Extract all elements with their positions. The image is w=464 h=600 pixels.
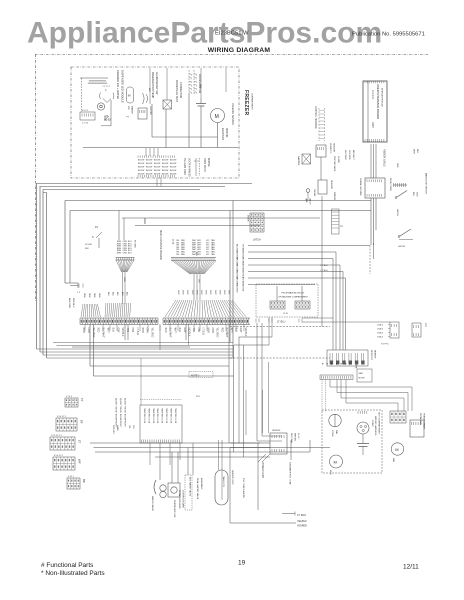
svg-text:BLK/W: BLK/W <box>146 167 152 169</box>
svg-text:6 5 4 3 2 1: 6 5 4 3 2 1 <box>54 455 63 457</box>
svg-text:Publication No. 5995505671: Publication No. 5995505671 <box>352 31 425 37</box>
svg-text:HEATER 120V: HEATER 120V <box>231 470 234 485</box>
svg-text:GRN: GRN <box>355 364 357 369</box>
svg-text:BLK/W: BLK/W <box>138 167 144 169</box>
svg-text:WHT: WHT <box>177 290 179 295</box>
svg-text:LT.BLU: LT.BLU <box>377 329 384 331</box>
svg-text:QUICK TOUCH IN DEFROST: QUICK TOUCH IN DEFROST <box>119 398 121 428</box>
svg-text:WIRING: WIRING <box>207 158 209 167</box>
svg-text:TAN: TAN <box>211 253 215 256</box>
svg-text:BF: BF <box>80 420 84 424</box>
svg-text:LED: LED <box>104 117 109 119</box>
svg-text:OF MACHINE COMPARTMENT: OF MACHINE COMPARTMENT <box>278 296 308 299</box>
svg-text:M: M <box>395 447 398 452</box>
svg-text:TEMP RES 16.3K: TEMP RES 16.3K <box>147 408 149 424</box>
svg-text:BLK/W: BLK/W <box>170 160 176 162</box>
svg-text:RED: RED <box>181 254 186 256</box>
svg-text:YEL/BLK: YEL/BLK <box>297 520 307 523</box>
svg-text:BLK/W: BLK/W <box>170 170 176 172</box>
svg-text:BLK/W: BLK/W <box>162 170 168 172</box>
svg-text:BLK/W: BLK/W <box>138 174 144 176</box>
svg-text:BLK: BLK <box>148 88 150 92</box>
svg-text:DAMPER: DAMPER <box>297 156 300 166</box>
svg-text:YEL/RED: YEL/RED <box>151 328 153 338</box>
svg-text:AUX WATER VALVE: AUX WATER VALVE <box>189 477 192 497</box>
svg-text:VIO: VIO <box>132 425 134 429</box>
svg-text:WHT: WHT <box>214 290 216 295</box>
svg-text:TEMP RES 16.3K: TEMP RES 16.3K <box>174 408 176 424</box>
svg-text:LT.BLU: LT.BLU <box>377 325 384 327</box>
svg-text:IM: IM <box>128 95 131 98</box>
svg-text:T: T <box>105 89 107 93</box>
svg-text:ORN: ORN <box>199 84 201 89</box>
svg-text:BRN ORN: BRN ORN <box>68 298 70 309</box>
svg-text:BRN: BRN <box>141 328 143 333</box>
svg-text:BLU: BLU <box>112 292 114 296</box>
svg-text:ICE: ICE <box>127 106 129 110</box>
svg-text:YEL: YEL <box>176 254 180 256</box>
svg-text:ORN: ORN <box>93 293 95 298</box>
svg-text:VIO BLK: VIO BLK <box>242 284 244 292</box>
svg-text:MAIN DOOR SWITCH: MAIN DOOR SWITCH <box>425 173 428 194</box>
svg-text:LT. BLU: LT. BLU <box>277 321 286 324</box>
svg-text:SEE: SEE <box>359 373 364 375</box>
svg-text:DISPLAY MODULE: DISPLAY MODULE <box>381 88 384 108</box>
svg-text:BLK/W: BLK/W <box>162 167 168 169</box>
svg-text:YEL/GRN: YEL/GRN <box>348 150 350 160</box>
svg-text:FILL TUBE HEATER: FILL TUBE HEATER <box>242 478 245 498</box>
svg-text:L1 N: L1 N <box>283 313 288 315</box>
svg-text:GRN/YEL: GRN/YEL <box>272 430 282 432</box>
svg-text:AppliancePartsPros.com: AppliancePartsPros.com <box>27 17 382 50</box>
svg-text:BRN: BRN <box>117 253 122 255</box>
svg-text:SIGNAL GROUND: SIGNAL GROUND <box>359 178 362 196</box>
svg-text:HARN: HARN <box>116 425 119 431</box>
svg-text:LT.BLU: LT.BLU <box>377 333 384 335</box>
svg-text:FAN: FAN <box>392 458 395 463</box>
svg-text:LATCH: LATCH <box>398 245 405 248</box>
svg-text:LT BLU: LT BLU <box>136 328 138 336</box>
svg-text:TEMP RES 16.3K: TEMP RES 16.3K <box>165 408 167 424</box>
svg-text:BLU: BLU <box>116 292 118 296</box>
svg-text:LATCH: LATCH <box>253 239 261 242</box>
svg-text:19: 19 <box>238 560 246 567</box>
svg-text:FREEZER SENSOR: FREEZER SENSOR <box>231 103 234 125</box>
svg-text:COND: COND <box>331 430 333 437</box>
svg-text:* Non-Illustrated Parts: * Non-Illustrated Parts <box>41 570 105 577</box>
svg-text:ORN: ORN <box>83 293 85 298</box>
svg-text:YEL/RED: YEL/RED <box>216 328 218 338</box>
svg-text:FRZR DOOR: FRZR DOOR <box>203 158 205 172</box>
svg-text:WHT: WHT <box>416 192 418 197</box>
svg-text:CONTROL HOUSING: CONTROL HOUSING <box>314 106 316 129</box>
svg-text:LT. BLU: LT. BLU <box>321 265 329 267</box>
svg-text:RUN: RUN <box>329 470 331 475</box>
svg-text:BLU: BLU <box>111 328 113 333</box>
svg-text:FREEZER: FREEZER <box>243 90 249 116</box>
svg-text:WHT: WHT <box>218 290 220 295</box>
svg-text:4 3 2 1: 4 3 2 1 <box>68 476 74 478</box>
svg-text:VIO/RED: VIO/RED <box>297 525 307 528</box>
svg-text:DISP: DISP <box>371 122 374 128</box>
svg-text:ORN: ORN <box>123 253 128 255</box>
svg-text:BLU: BLU <box>125 292 127 296</box>
svg-text:COMPARTMENT: COMPARTMENT <box>251 93 254 111</box>
svg-text:COMP: COMP <box>371 420 373 427</box>
svg-text:TAN: TAN <box>192 328 195 333</box>
svg-text:TP: TP <box>80 398 84 402</box>
svg-text:ALARM RESET SW: ALARM RESET SW <box>155 72 158 95</box>
svg-text:RED: RED <box>220 328 222 333</box>
svg-text:NOTE: NOTE <box>359 378 366 380</box>
svg-text:DUCT: DUCT <box>309 199 311 205</box>
svg-text:NEUTRAL: NEUTRAL <box>290 433 293 444</box>
svg-text:BLK/W: BLK/W <box>138 163 144 165</box>
svg-text:ICEMAKER FILL TUBE: ICEMAKER FILL TUBE <box>289 462 292 485</box>
svg-text:TRANSFORMER: TRANSFORMER <box>423 413 426 430</box>
svg-text:RIBBON: RIBBON <box>333 192 335 200</box>
svg-text:BLK/W: BLK/W <box>146 174 152 176</box>
svg-text:RED: RED <box>164 328 166 333</box>
svg-text:DOOR HARNESS: DOOR HARNESS <box>188 158 191 177</box>
svg-text:CONNECTOR: CONNECTOR <box>179 82 182 98</box>
svg-text:ORN: ORN <box>146 328 148 333</box>
svg-text:VIO: VIO <box>206 254 210 256</box>
svg-text:BLK/W: BLK/W <box>138 160 144 162</box>
svg-text:1 2 3 4: 1 2 3 4 <box>66 396 72 398</box>
svg-text:DOOR: DOOR <box>85 244 92 246</box>
svg-text:BLK/W: BLK/W <box>154 170 160 172</box>
svg-text:BLU: BLU <box>128 253 132 255</box>
svg-text:DOOR PLUG TEST: DOOR PLUG TEST <box>175 80 178 103</box>
svg-text:TEMP RES 16.3K: TEMP RES 16.3K <box>169 408 171 424</box>
svg-text:TANK HTR: TANK HTR <box>222 476 225 487</box>
svg-text:DISPENSER LED MODULE: DISPENSER LED MODULE <box>121 70 125 103</box>
svg-text:W/F: W/F <box>78 459 82 464</box>
svg-text:WIRING DIAGRAM: WIRING DIAGRAM <box>208 47 271 54</box>
svg-text:WHT: WHT <box>200 290 202 295</box>
svg-text:WHT: WHT <box>107 328 109 334</box>
svg-text:FROM MAIN BD IN/OUT: FROM MAIN BD IN/OUT <box>282 292 306 295</box>
svg-text:4 3 2 1: 4 3 2 1 <box>82 110 89 112</box>
svg-text:LT. BLU: LT. BLU <box>297 513 306 517</box>
svg-text:WHT: WHT <box>195 290 197 295</box>
svg-text:EVAP FAN: EVAP FAN <box>221 128 224 140</box>
svg-text:THERM: THERM <box>313 189 315 196</box>
svg-text:WHT: WHT <box>205 290 207 295</box>
svg-text:WHT: WHT <box>413 149 415 154</box>
svg-text:BLK/WHT: BLK/WHT <box>169 328 171 339</box>
svg-text:CENTER WIRE: CENTER WIRE <box>333 156 335 172</box>
svg-text:ET: ET <box>78 440 82 444</box>
svg-text:WHT: WHT <box>230 328 232 334</box>
svg-text:BD 12: BD 12 <box>104 120 111 122</box>
svg-text:BLK/WHT: BLK/WHT <box>352 150 354 160</box>
svg-text:ORN: ORN <box>88 293 90 298</box>
svg-text:WHT: WHT <box>228 290 230 295</box>
svg-text:GUIDE: GUIDE <box>337 156 339 163</box>
svg-text:QUICK TOUCH IN DEFROST: QUICK TOUCH IN DEFROST <box>124 398 126 428</box>
svg-text:WHT/BLK: WHT/BLK <box>344 150 346 160</box>
svg-text:12/11: 12/11 <box>403 564 419 571</box>
svg-text:AIR: AIR <box>305 199 308 203</box>
svg-text:POWER CORD: POWER CORD <box>261 462 263 478</box>
svg-text:MAKER: MAKER <box>131 106 134 114</box>
svg-text:GRY: GRY <box>116 328 118 333</box>
svg-text:MAIN CONTROL BOARD: MAIN CONTROL BOARD <box>159 230 163 260</box>
svg-text:RED BLU: RED BLU <box>72 298 74 308</box>
svg-text:BLK/WHT: BLK/WHT <box>102 328 104 339</box>
svg-text:WHT: WHT <box>191 290 193 295</box>
svg-text:FREEZER ICE + WATER: FREEZER ICE + WATER <box>116 70 120 99</box>
svg-text:TEMP RES 16.3K: TEMP RES 16.3K <box>156 408 158 424</box>
svg-text:BLK: BLK <box>412 192 414 196</box>
svg-text:ASSEMBLY: ASSEMBLY <box>200 478 203 490</box>
svg-text:LT.BLU: LT.BLU <box>377 337 384 339</box>
svg-text:UNIT COMPARTMENT: UNIT COMPARTMENT <box>378 412 381 435</box>
svg-text:BLK/W: BLK/W <box>162 160 168 162</box>
svg-text:J2 4A: J2 4A <box>172 239 175 245</box>
svg-text:P10 BLK: P10 BLK <box>134 240 136 249</box>
svg-text:BLK/W: BLK/W <box>170 163 176 165</box>
svg-text:BLK/W: BLK/W <box>146 170 152 172</box>
svg-text:EDGE CONN: EDGE CONN <box>389 178 391 191</box>
svg-text:BLK/W: BLK/W <box>146 163 152 165</box>
svg-text:SENSOR: SENSOR <box>330 180 332 190</box>
svg-text:LT. BLU: LT. BLU <box>321 270 329 272</box>
svg-text:YEL/GRN FRZR: YEL/GRN FRZR <box>183 158 185 175</box>
svg-text:L1 L2: L1 L2 <box>297 433 299 439</box>
svg-text:WIRING: WIRING <box>294 433 296 441</box>
svg-text:BLU: BLU <box>416 149 418 154</box>
svg-text:BRN: BRN <box>206 328 208 333</box>
svg-text:WIRING HARNESS: WIRING HARNESS <box>374 416 377 436</box>
svg-text:VIO: VIO <box>198 279 200 283</box>
svg-text:RED: RED <box>97 328 99 333</box>
svg-text:BLK/W: BLK/W <box>162 163 168 165</box>
svg-text:GRY: GRY <box>183 328 185 333</box>
svg-text:BLU: BLU <box>178 328 180 333</box>
svg-text:DUAL WATER VALVE: DUAL WATER VALVE <box>196 478 199 500</box>
svg-text:QUICK TOUCH IN DEFROST: QUICK TOUCH IN DEFROST <box>115 398 117 428</box>
svg-text:PNK: PNK <box>197 328 199 333</box>
svg-text:ORN: ORN <box>123 277 125 282</box>
svg-text:CONTROL BOARD: CONTROL BOARD <box>182 490 185 509</box>
svg-text:BLK/W: BLK/W <box>162 174 168 176</box>
svg-text:ORN: ORN <box>87 328 89 333</box>
svg-text:LATCH: LATCH <box>396 209 399 216</box>
svg-text:WHT: WHT <box>223 290 225 295</box>
svg-text:LT BLU: LT BLU <box>202 328 204 336</box>
svg-text:MOTOR: MOTOR <box>225 128 228 137</box>
svg-text:TEMP RES 16.3K: TEMP RES 16.3K <box>161 408 163 424</box>
svg-text:WHT: WHT <box>209 290 211 295</box>
svg-text:WHT: WHT <box>173 328 175 334</box>
svg-text:BLK/W: BLK/W <box>146 160 152 162</box>
svg-text:M: M <box>215 114 219 120</box>
svg-text:VIO/BLK: VIO/BLK <box>121 328 123 337</box>
svg-text:TEMP RES 16.3K: TEMP RES 16.3K <box>143 408 145 424</box>
svg-text:BLK/W: BLK/W <box>154 167 160 169</box>
svg-text:1 2 3 4: 1 2 3 4 <box>82 123 89 125</box>
svg-text:LED BD: LED BD <box>149 106 152 115</box>
svg-text:FREEZER HIGH TEMP: FREEZER HIGH TEMP <box>151 72 154 99</box>
svg-text:BLK/W: BLK/W <box>154 163 160 165</box>
svg-text:P2 P3 P5: P2 P3 P5 <box>371 90 373 100</box>
svg-text:B/F: B/F <box>82 479 86 483</box>
svg-text:ORN: ORN <box>98 293 100 298</box>
svg-text:GRN: GRN <box>396 163 398 168</box>
svg-text:BLK/W: BLK/W <box>170 167 176 169</box>
svg-text:WATER VALVE: WATER VALVE <box>151 496 154 512</box>
svg-text:BLK/W: BLK/W <box>154 160 160 162</box>
svg-text:TEMP RES 16.3K: TEMP RES 16.3K <box>152 408 154 424</box>
svg-text:BLK: BLK <box>195 252 197 257</box>
svg-text:7 6 5 4 3 2 1: 7 6 5 4 3 2 1 <box>51 435 62 437</box>
svg-text:EI23BC51IW: EI23BC51IW <box>215 31 249 37</box>
svg-text:MAIN: MAIN <box>143 218 146 224</box>
svg-text:DOOR: DOOR <box>247 215 249 222</box>
svg-text:TO PTC: TO PTC <box>381 344 389 346</box>
svg-text:BRN: BRN <box>82 328 84 333</box>
svg-text:ORN: ORN <box>211 328 213 333</box>
svg-text:WHT: WHT <box>186 290 188 295</box>
svg-text:6 5 4 3 2 1: 6 5 4 3 2 1 <box>57 416 66 418</box>
svg-text:PNK: PNK <box>131 328 133 333</box>
svg-text:HEATER: HEATER <box>374 350 377 359</box>
svg-text:BLU/WHT: BLU/WHT <box>236 284 238 294</box>
svg-text:# Functional Parts: # Functional Parts <box>41 562 94 569</box>
svg-text:BLU: BLU <box>107 292 109 296</box>
svg-text:RIBBON CABLE: RIBBON CABLE <box>383 149 386 167</box>
svg-text:FROM MAIN: FROM MAIN <box>419 413 422 425</box>
svg-text:HUMIDITY: HUMIDITY <box>329 143 331 154</box>
svg-text:WTR VLV: WTR VLV <box>112 425 114 434</box>
svg-text:SENSOR: SENSOR <box>333 143 335 153</box>
svg-text:FROM DISPENSER: FROM DISPENSER <box>178 490 180 509</box>
svg-text:GRY: GRY <box>239 328 241 333</box>
svg-text:DEFROST: DEFROST <box>370 350 372 361</box>
svg-text:USER INTERFACE BOARD: USER INTERFACE BOARD <box>376 84 380 119</box>
svg-text:BLK/W: BLK/W <box>138 170 144 172</box>
svg-text:WHT: WHT <box>182 290 184 295</box>
svg-text:PTC: PTC <box>424 323 426 328</box>
svg-text:BLK/W: BLK/W <box>170 174 176 176</box>
svg-text:DISPENSER SOL: DISPENSER SOL <box>173 500 175 518</box>
svg-text:FAN: FAN <box>335 430 338 435</box>
svg-text:NOTE 1: NOTE 1 <box>191 375 200 378</box>
svg-text:BLU: BLU <box>121 292 123 296</box>
svg-text:TAN: TAN <box>126 328 129 333</box>
svg-text:M: M <box>334 460 337 465</box>
